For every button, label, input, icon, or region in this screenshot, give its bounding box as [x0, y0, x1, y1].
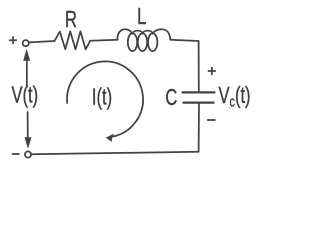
- minus sign capacitor: [208, 119, 215, 121]
- plus sign capacitor: [209, 68, 216, 75]
- terminal top-left (open circle): [23, 40, 29, 46]
- minus sign bottom-left: [13, 153, 20, 155]
- capacitor C1 bottom plate: [184, 101, 214, 103]
- svg-text:V(t): V(t): [11, 83, 38, 108]
- wire capacitor down to bottom-right corner: [198, 104, 200, 152]
- V(t) arrow upper shaft: [26, 59, 28, 87]
- wire between resistor and inductor: [90, 39, 117, 42]
- inductor L1 hump 1-2: [133, 31, 143, 34]
- wire right side down to capacitor: [198, 41, 200, 91]
- svg-text:R: R: [65, 7, 77, 32]
- inductor L1 coil: entry hump: [117, 29, 132, 40]
- inductor L1 exit hump: [153, 29, 171, 40]
- inductor L1 loop 1: [128, 33, 137, 51]
- terminal bottom-left (open circle): [25, 151, 31, 157]
- inductor L1 loop 3: [148, 33, 157, 51]
- wire top-left from source terminal to resistor: [29, 41, 54, 42]
- capacitor C1 top plate: [183, 91, 215, 93]
- svg-text:L: L: [137, 4, 146, 29]
- inductor L1 hump 2-3: [143, 31, 153, 34]
- wire inductor to top-right corner: [170, 40, 198, 41]
- V(t) arrow lower shaft: [27, 112, 29, 139]
- resistor R1 zigzag: [55, 31, 91, 49]
- inductor L1 loop 2: [138, 33, 147, 51]
- current loop arrowhead: [106, 134, 114, 142]
- current loop arc I(t): [67, 61, 143, 136]
- plus sign top-left: [10, 37, 16, 43]
- svg-text:I(t): I(t): [92, 85, 112, 110]
- bottom wire: [31, 152, 198, 155]
- svg-text:Vc(t): Vc(t): [219, 83, 251, 109]
- V(t) arrowhead up: [23, 49, 30, 61]
- V(t) arrowhead down: [25, 137, 32, 149]
- svg-text:C: C: [165, 85, 177, 110]
